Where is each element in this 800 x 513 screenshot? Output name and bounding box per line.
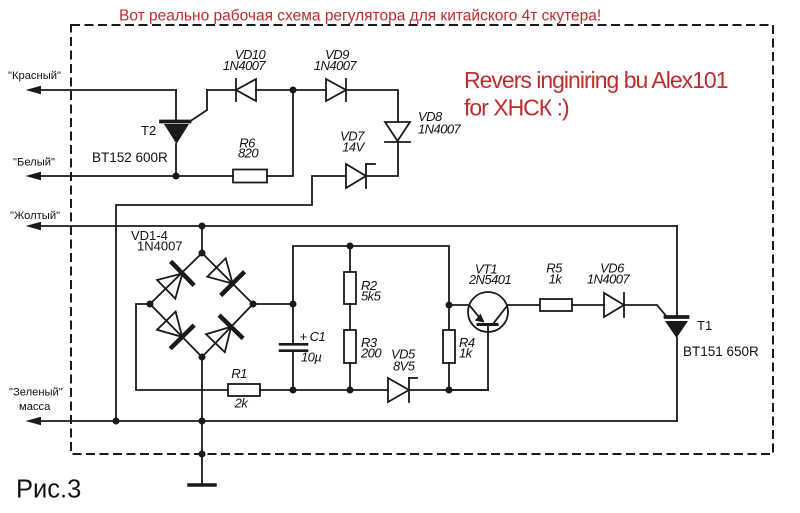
svg-text:14V: 14V — [342, 140, 365, 155]
svg-text:"Зеленый": "Зеленый" — [9, 387, 63, 399]
node arrow Красный output — [26, 86, 42, 94]
border dashed frame — [71, 25, 773, 454]
wire yellow net to bridge top — [201, 226, 203, 253]
resistor R6 — [233, 170, 267, 183]
diode VD10 — [236, 79, 256, 101]
junction T2 cathode on white net — [173, 173, 180, 180]
wire VD10 to junction — [256, 89, 326, 91]
diode bridge top-right — [207, 258, 243, 294]
junction VD10-VD9-R6 node — [290, 87, 297, 94]
junction R3 bottom node — [347, 387, 354, 394]
wire VD8 to VD7 — [367, 142, 398, 176]
wire T2 anode drop — [175, 90, 177, 120]
svg-text:"Красный": "Красный" — [8, 70, 61, 82]
svg-text:масса: масса — [19, 401, 51, 413]
wire green mass net horizontal — [40, 420, 677, 422]
svg-text:10µ: 10µ — [301, 350, 321, 365]
thyristor T2 — [161, 90, 207, 176]
wire bridge right to C1 junction — [253, 303, 293, 305]
svg-text:for ХНСК :): for ХНСК :) — [464, 95, 569, 121]
wire C1 riser to top rail — [293, 246, 449, 305]
svg-text:1k: 1k — [549, 272, 564, 287]
wire bridge bottom to ground — [201, 357, 203, 485]
junction R4 VD5 base node — [446, 387, 453, 394]
svg-text:"Жолтый": "Жолтый" — [10, 210, 60, 222]
diode VD8 — [385, 122, 410, 142]
resistor R4 — [443, 305, 455, 390]
svg-text:200: 200 — [360, 346, 382, 361]
svg-text:1N4007: 1N4007 — [137, 239, 183, 254]
svg-text:820: 820 — [238, 146, 259, 161]
svg-text:R1: R1 — [231, 366, 247, 381]
svg-text:1N4007: 1N4007 — [223, 58, 267, 73]
node arrow Белый output — [26, 172, 42, 180]
junction R2 top node — [347, 243, 354, 250]
wire bridge left to R1 — [136, 304, 228, 390]
zener VD7 — [346, 164, 375, 188]
diode VD9 — [326, 79, 346, 101]
wire R6 to red net junction — [267, 90, 293, 176]
svg-text:1N4007: 1N4007 — [418, 122, 462, 137]
svg-text:Вот реально рабочая схема регу: Вот реально рабочая схема регулятора для… — [119, 8, 601, 25]
resistor R2 — [344, 246, 356, 304]
junction bridge bottom vertex — [199, 354, 206, 361]
resistor R1 — [228, 384, 260, 396]
junction C1 bottom node — [290, 387, 297, 394]
wire red net horizontal — [40, 89, 176, 91]
diode bridge top-left — [157, 263, 193, 299]
svg-text:8V5: 8V5 — [393, 359, 416, 374]
bridge diamond VD1-4 — [150, 253, 253, 357]
junction bridge right vertex — [250, 301, 257, 308]
svg-text:2N5401: 2N5401 — [468, 272, 512, 287]
svg-text:1k: 1k — [459, 346, 474, 361]
svg-text:1N4007: 1N4007 — [587, 272, 631, 287]
wire white net horizontal — [40, 175, 233, 177]
junction bridge left vertex — [147, 301, 154, 308]
wire R1 to C1 bottom junction — [260, 389, 293, 391]
junction yellow net to bridge — [199, 223, 206, 230]
junction VD7 rail on green net — [113, 418, 120, 425]
diode VD6 — [604, 293, 624, 317]
wire R5 to VD6 — [572, 304, 604, 306]
wire bottom rail — [293, 389, 388, 391]
svg-text:T2: T2 — [141, 123, 156, 138]
wire VD6 to T1 gate — [624, 305, 667, 317]
transistor VT1 — [449, 292, 540, 390]
resistor R5 — [540, 299, 572, 311]
wire VD9 to VD8 corner — [346, 90, 398, 122]
svg-text:5k5: 5k5 — [361, 289, 382, 304]
svg-text:BT151 650R: BT151 650R — [683, 344, 759, 359]
diode bridge bottom-right — [206, 317, 242, 353]
thyristor T1 — [665, 226, 688, 421]
junction bridge top vertex — [199, 250, 206, 257]
svg-text:BT152 600R: BT152 600R — [92, 150, 168, 165]
svg-text:Рис.3: Рис.3 — [16, 476, 81, 504]
svg-text:T1: T1 — [697, 318, 712, 333]
junction VT1 emitter R4 node — [446, 302, 453, 309]
capacitor C1 — [280, 304, 307, 390]
svg-text:"Белый": "Белый" — [13, 157, 55, 169]
svg-text:2k: 2k — [234, 396, 250, 411]
zener VD5 — [388, 378, 417, 402]
wire VD7 to ground rail — [116, 176, 346, 421]
ground — [189, 483, 215, 487]
junction C1 top node — [290, 301, 297, 308]
svg-text:+ C1: + C1 — [300, 329, 326, 344]
junction ground stem on border — [199, 451, 206, 458]
node arrow Зеленый output — [26, 417, 42, 425]
wire VD5 to base node — [409, 389, 488, 391]
svg-text:1N4007: 1N4007 — [314, 58, 358, 73]
resistor R3 — [344, 304, 356, 390]
svg-text:Revers inginiring bu Alex101: Revers inginiring bu Alex101 — [464, 67, 728, 93]
junction bridge bottom on green net — [199, 418, 206, 425]
node arrow Жолтый output — [26, 222, 42, 230]
diode bridge bottom-left — [157, 312, 193, 348]
wire T2 gate to VD10 — [207, 89, 236, 91]
wire yellow net horizontal — [40, 225, 677, 227]
